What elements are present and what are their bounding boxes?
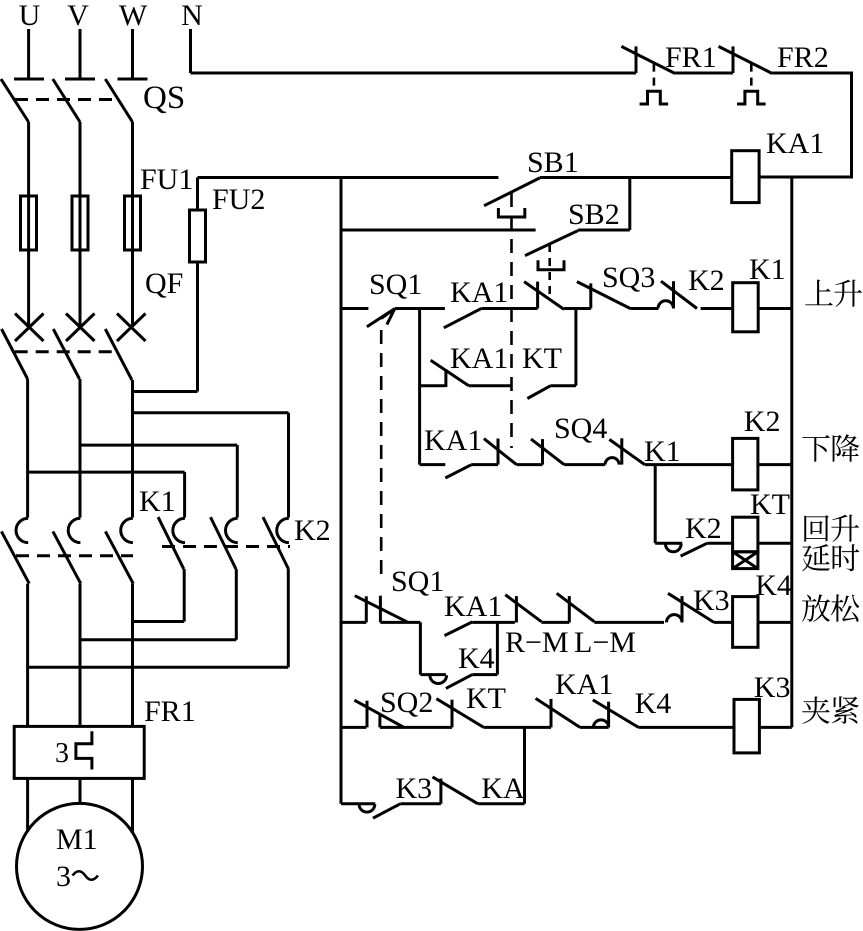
wire K2 out1 <box>183 569 186 621</box>
wire row5 a <box>380 726 452 729</box>
wire W drop <box>131 29 134 78</box>
time contact KT blade <box>527 386 550 399</box>
limit switch SQ1 blade <box>367 309 395 327</box>
breaker QF pole U cross <box>15 314 44 342</box>
wire row1 f <box>758 307 792 310</box>
contactor coil K3 <box>734 699 759 753</box>
node row1 branch <box>418 309 421 465</box>
wire row1 e <box>701 307 733 310</box>
wire N right corner <box>759 73 851 177</box>
wire FU2 bottom <box>196 262 199 392</box>
svg-text:SB2: SB2 <box>568 198 620 231</box>
wire row3 d <box>564 463 605 466</box>
fuse FU1 pole W <box>125 196 141 250</box>
wire row1 start <box>341 307 368 310</box>
contactor K1 contact U <box>1 518 29 583</box>
wire V out <box>79 584 82 727</box>
label clamp <box>802 696 859 724</box>
wire row3 f <box>758 463 792 466</box>
contactor coil K1 <box>733 283 759 332</box>
wire K2 out2 <box>235 569 238 640</box>
wire row4 start <box>341 621 366 624</box>
wire row3 a <box>420 463 446 466</box>
wire K2 col3 feed <box>287 413 290 518</box>
svg-text:N: N <box>181 0 203 32</box>
svg-text:K1: K1 <box>749 253 786 286</box>
contactor coil K2 <box>733 438 758 490</box>
contactor contact K2 row1 <box>658 281 697 308</box>
pushbutton SB1 link <box>510 193 513 448</box>
relay coil KA1 <box>732 151 759 203</box>
switch QS pole W blade <box>105 79 132 122</box>
contactor K2 linkage <box>162 545 290 548</box>
wire row5 c <box>580 726 609 729</box>
svg-text:K1: K1 <box>644 435 681 468</box>
svg-text:KA1: KA1 <box>766 127 824 160</box>
pushbutton SB1 cap <box>498 208 524 217</box>
svg-text:W: W <box>119 0 148 32</box>
wire K2 col1 feed <box>183 472 186 517</box>
svg-text:SQ4: SQ4 <box>554 412 607 445</box>
svg-text:K3: K3 <box>693 584 730 617</box>
relay contact KA1 row4 blade <box>445 622 473 636</box>
pushbutton SB2 NC bar <box>536 282 539 309</box>
wire K4par b <box>472 673 497 676</box>
svg-text:R−M: R−M <box>505 626 569 659</box>
pushbutton SB1 NC blade <box>484 439 517 465</box>
time contact KT row5 blade <box>436 699 483 728</box>
switch QS pole U blade <box>1 79 29 122</box>
wire row4 c <box>541 621 569 624</box>
contactor contact K2 ktrow <box>666 543 708 556</box>
wire row2 up <box>574 309 577 386</box>
wire N drop <box>189 29 192 73</box>
pushbutton SB1 NC bar <box>497 439 500 465</box>
contactor K2 contact 1 <box>158 517 185 569</box>
pushbutton SB2 cap <box>538 260 564 270</box>
wire W branch right <box>133 411 289 414</box>
svg-text:FU2: FU2 <box>212 183 265 216</box>
svg-text:QF: QF <box>145 267 183 300</box>
svg-text:L−M: L−M <box>574 626 636 659</box>
wire row4 b <box>472 621 515 624</box>
wire FR1-FR2 <box>675 72 733 75</box>
svg-text:K4: K4 <box>635 687 672 720</box>
wire left rail <box>340 178 343 804</box>
fuse FU1 pole U <box>21 196 37 250</box>
contactor contact K1 row3 <box>605 438 645 464</box>
wire K2 out3 <box>287 569 290 667</box>
wire motor U <box>26 778 29 832</box>
svg-text:V: V <box>67 0 89 32</box>
wire SB2 right <box>578 229 630 232</box>
wire FU2 top <box>196 178 199 211</box>
wire row2 b <box>469 384 512 387</box>
wire V branch right <box>80 444 237 447</box>
label M1 3-phase <box>56 860 98 893</box>
pushbutton SB2 link <box>548 244 551 298</box>
svg-text:KA: KA <box>481 772 525 805</box>
label lower <box>802 434 859 462</box>
breaker QF pole U blade <box>2 329 28 379</box>
svg-text:SQ3: SQ3 <box>602 261 655 294</box>
svg-text:FU1: FU1 <box>140 163 193 196</box>
wire V mid <box>79 122 82 327</box>
wire row6 a <box>400 802 441 805</box>
svg-text:M1: M1 <box>56 823 98 856</box>
wire row5 e <box>759 726 791 729</box>
relay contact L-M blade <box>557 593 595 621</box>
node row3 branch <box>654 465 657 544</box>
label delay line1 <box>804 515 859 542</box>
wire row2 a <box>420 384 445 387</box>
wire row1 c <box>564 307 591 310</box>
thermal contact FR1 actuator <box>640 91 669 104</box>
thermal relay FR1 heater <box>76 731 92 769</box>
contactor K1 linkage <box>16 554 133 557</box>
switch QS pole V bar <box>65 78 95 81</box>
limit switch SQ2 prong <box>378 714 381 728</box>
wire row4 d <box>594 621 664 624</box>
wire U branch right <box>28 471 185 474</box>
contactor K1 contact W <box>105 518 133 583</box>
relay contact KA1 row1 blade <box>444 308 482 327</box>
breaker QF pole W blade <box>105 329 132 380</box>
svg-text:SQ2: SQ2 <box>380 686 433 719</box>
relay contact KA1 row5 bar <box>550 699 553 728</box>
svg-text:KT: KT <box>750 488 790 521</box>
svg-text:KT: KT <box>522 342 562 375</box>
relay contact KA1 row5 blade <box>536 698 580 727</box>
wire K2 out1 link <box>133 620 184 623</box>
wire row3 c <box>517 463 543 466</box>
wire SB2 row left <box>341 229 536 232</box>
breaker QF pole V blade <box>53 329 79 379</box>
relay contact KA1 row2 bar <box>444 369 447 387</box>
limit switch SQ1 row4 blade <box>355 596 407 622</box>
relay contact KA bar <box>439 779 442 804</box>
wire motor V <box>79 778 82 803</box>
wire row6 b <box>478 802 525 805</box>
svg-text:FR1: FR1 <box>144 695 196 728</box>
svg-text:K2: K2 <box>744 405 781 438</box>
label delay line2 <box>802 544 859 571</box>
svg-text:KT: KT <box>466 682 506 715</box>
label release <box>802 594 859 622</box>
relay contact KA blade <box>433 777 478 804</box>
fuse FU1 pole V <box>72 196 88 250</box>
contactor coil K4 <box>733 597 758 648</box>
relay contact KA1 row3 blade <box>445 465 471 478</box>
pushbutton SB2 NC blade <box>524 282 564 310</box>
wire row1 a <box>395 307 445 310</box>
relay contact L-M bar <box>568 596 571 622</box>
wire FU2 link to W <box>133 390 198 393</box>
svg-text:FR2: FR2 <box>777 41 829 74</box>
svg-text:KA1: KA1 <box>424 424 482 457</box>
svg-text:K3: K3 <box>396 772 433 805</box>
svg-text:K4: K4 <box>755 569 792 602</box>
motor M1 circle <box>17 803 143 929</box>
svg-text:K1: K1 <box>139 485 176 518</box>
relay contact R-M blade <box>505 595 541 622</box>
breaker QF pole V cross <box>66 314 95 342</box>
time relay coil KT <box>733 517 758 552</box>
svg-text:KA1: KA1 <box>450 276 508 309</box>
switch QS linkage <box>15 98 119 101</box>
svg-text:KA1: KA1 <box>555 668 613 701</box>
wire W out <box>131 584 134 727</box>
svg-text:SQ1: SQ1 <box>391 565 444 598</box>
limit switch SQ1 row4 bar <box>365 596 368 622</box>
svg-text:KA1: KA1 <box>444 590 502 623</box>
wire row5 b <box>484 726 551 729</box>
time relay KT delay box <box>733 552 758 569</box>
limit switch SQ1 row4 prong <box>379 596 382 623</box>
wire U drop <box>27 29 30 78</box>
svg-text:K3: K3 <box>754 671 791 704</box>
contactor contact K3 row4 <box>667 593 715 622</box>
svg-text:K2: K2 <box>294 514 331 547</box>
svg-text:U: U <box>19 0 41 32</box>
wire K2 out2 link <box>80 638 236 641</box>
wire right rail <box>790 177 793 727</box>
wire row6 up <box>523 727 526 803</box>
wire U mid <box>27 122 30 327</box>
breaker QF linkage <box>15 350 119 353</box>
limit switch SQ4 blade <box>531 439 564 465</box>
wire K2 out3 link <box>28 666 289 669</box>
wire row3 b <box>471 463 498 466</box>
wire W mid <box>131 122 134 327</box>
svg-text:3: 3 <box>55 738 69 769</box>
wire row3 e <box>645 463 733 466</box>
svg-text:K4: K4 <box>458 642 495 675</box>
thermal contact FR1 bar <box>635 46 638 73</box>
wire row5 start <box>341 726 366 729</box>
contactor contact K3 row6 <box>359 804 400 818</box>
limit switch SQ1 link <box>380 330 383 580</box>
switch QS pole V blade <box>53 79 80 122</box>
wire row2 c <box>550 384 576 387</box>
relay contact KA1 row2 blade <box>431 360 469 386</box>
wire motor W <box>131 778 134 832</box>
thermal contact FR1 link <box>653 64 656 90</box>
wire ktrow a <box>655 542 682 545</box>
wire U lower <box>26 379 29 518</box>
wire K4par a <box>420 673 446 676</box>
contactor K2 contact 3 <box>263 517 289 569</box>
breaker QF pole W cross <box>117 314 146 342</box>
limit switch SQ3 blade <box>577 282 631 309</box>
limit switch SQ3 bar <box>589 283 592 308</box>
switch QS pole W bar <box>118 78 148 81</box>
wire ktrow b <box>707 542 732 545</box>
limit switch SQ2 blade <box>354 700 404 727</box>
svg-text:KA1: KA1 <box>450 342 508 375</box>
svg-text:SB1: SB1 <box>527 146 579 179</box>
wire W lower <box>131 380 134 518</box>
svg-text:K2: K2 <box>688 264 725 297</box>
wire U out <box>26 584 29 727</box>
limit switch SQ2 bar <box>366 701 369 728</box>
wire row1 d <box>631 307 659 310</box>
wire K2 col2 feed <box>236 445 239 517</box>
wire ktrow c <box>758 542 792 545</box>
wire row6 start <box>341 802 375 805</box>
switch QS pole U bar <box>14 78 44 81</box>
contactor contact K4 row5 <box>593 700 639 728</box>
thermal contact FR2 actuator <box>737 91 766 104</box>
time contact KT row5 bar <box>451 700 454 728</box>
svg-text:QS: QS <box>143 80 185 116</box>
wire SB2 branch up <box>628 178 631 231</box>
relay contact R-M bar <box>515 596 518 622</box>
thermal contact FR1 blade <box>621 46 675 73</box>
label rise <box>805 280 862 307</box>
limit switch SQ4 bar <box>541 439 544 465</box>
wire V lower <box>79 379 82 518</box>
wire row4 a <box>380 621 420 624</box>
svg-text:3: 3 <box>56 860 71 893</box>
wire row1 b <box>481 307 537 310</box>
thermal contact FR2 link <box>750 64 753 90</box>
svg-text:K2: K2 <box>685 512 722 545</box>
svg-text:FR1: FR1 <box>665 41 717 74</box>
wire K4par down <box>419 622 422 674</box>
wire row4 e <box>714 621 733 624</box>
wire N horizontal <box>191 72 637 75</box>
wire top rail left <box>198 176 499 179</box>
wire K4par up <box>496 622 499 674</box>
pushbutton SB1 blade <box>484 178 540 206</box>
thermal contact FR2 bar <box>732 46 735 73</box>
wire row4 f <box>758 621 792 624</box>
wire V drop <box>79 29 82 78</box>
contactor contact K4 parallel <box>430 675 472 689</box>
wire row5 d <box>639 726 735 729</box>
pushbutton SB2 blade <box>525 231 578 256</box>
fuse FU2 <box>190 210 206 262</box>
thermal relay FR1 box <box>14 726 144 778</box>
contactor K2 contact 2 <box>211 517 238 569</box>
thermal contact FR2 blade <box>719 46 773 73</box>
wire top rail right <box>540 176 732 179</box>
contactor K1 contact V <box>53 518 81 583</box>
svg-text:SQ1: SQ1 <box>369 268 422 301</box>
